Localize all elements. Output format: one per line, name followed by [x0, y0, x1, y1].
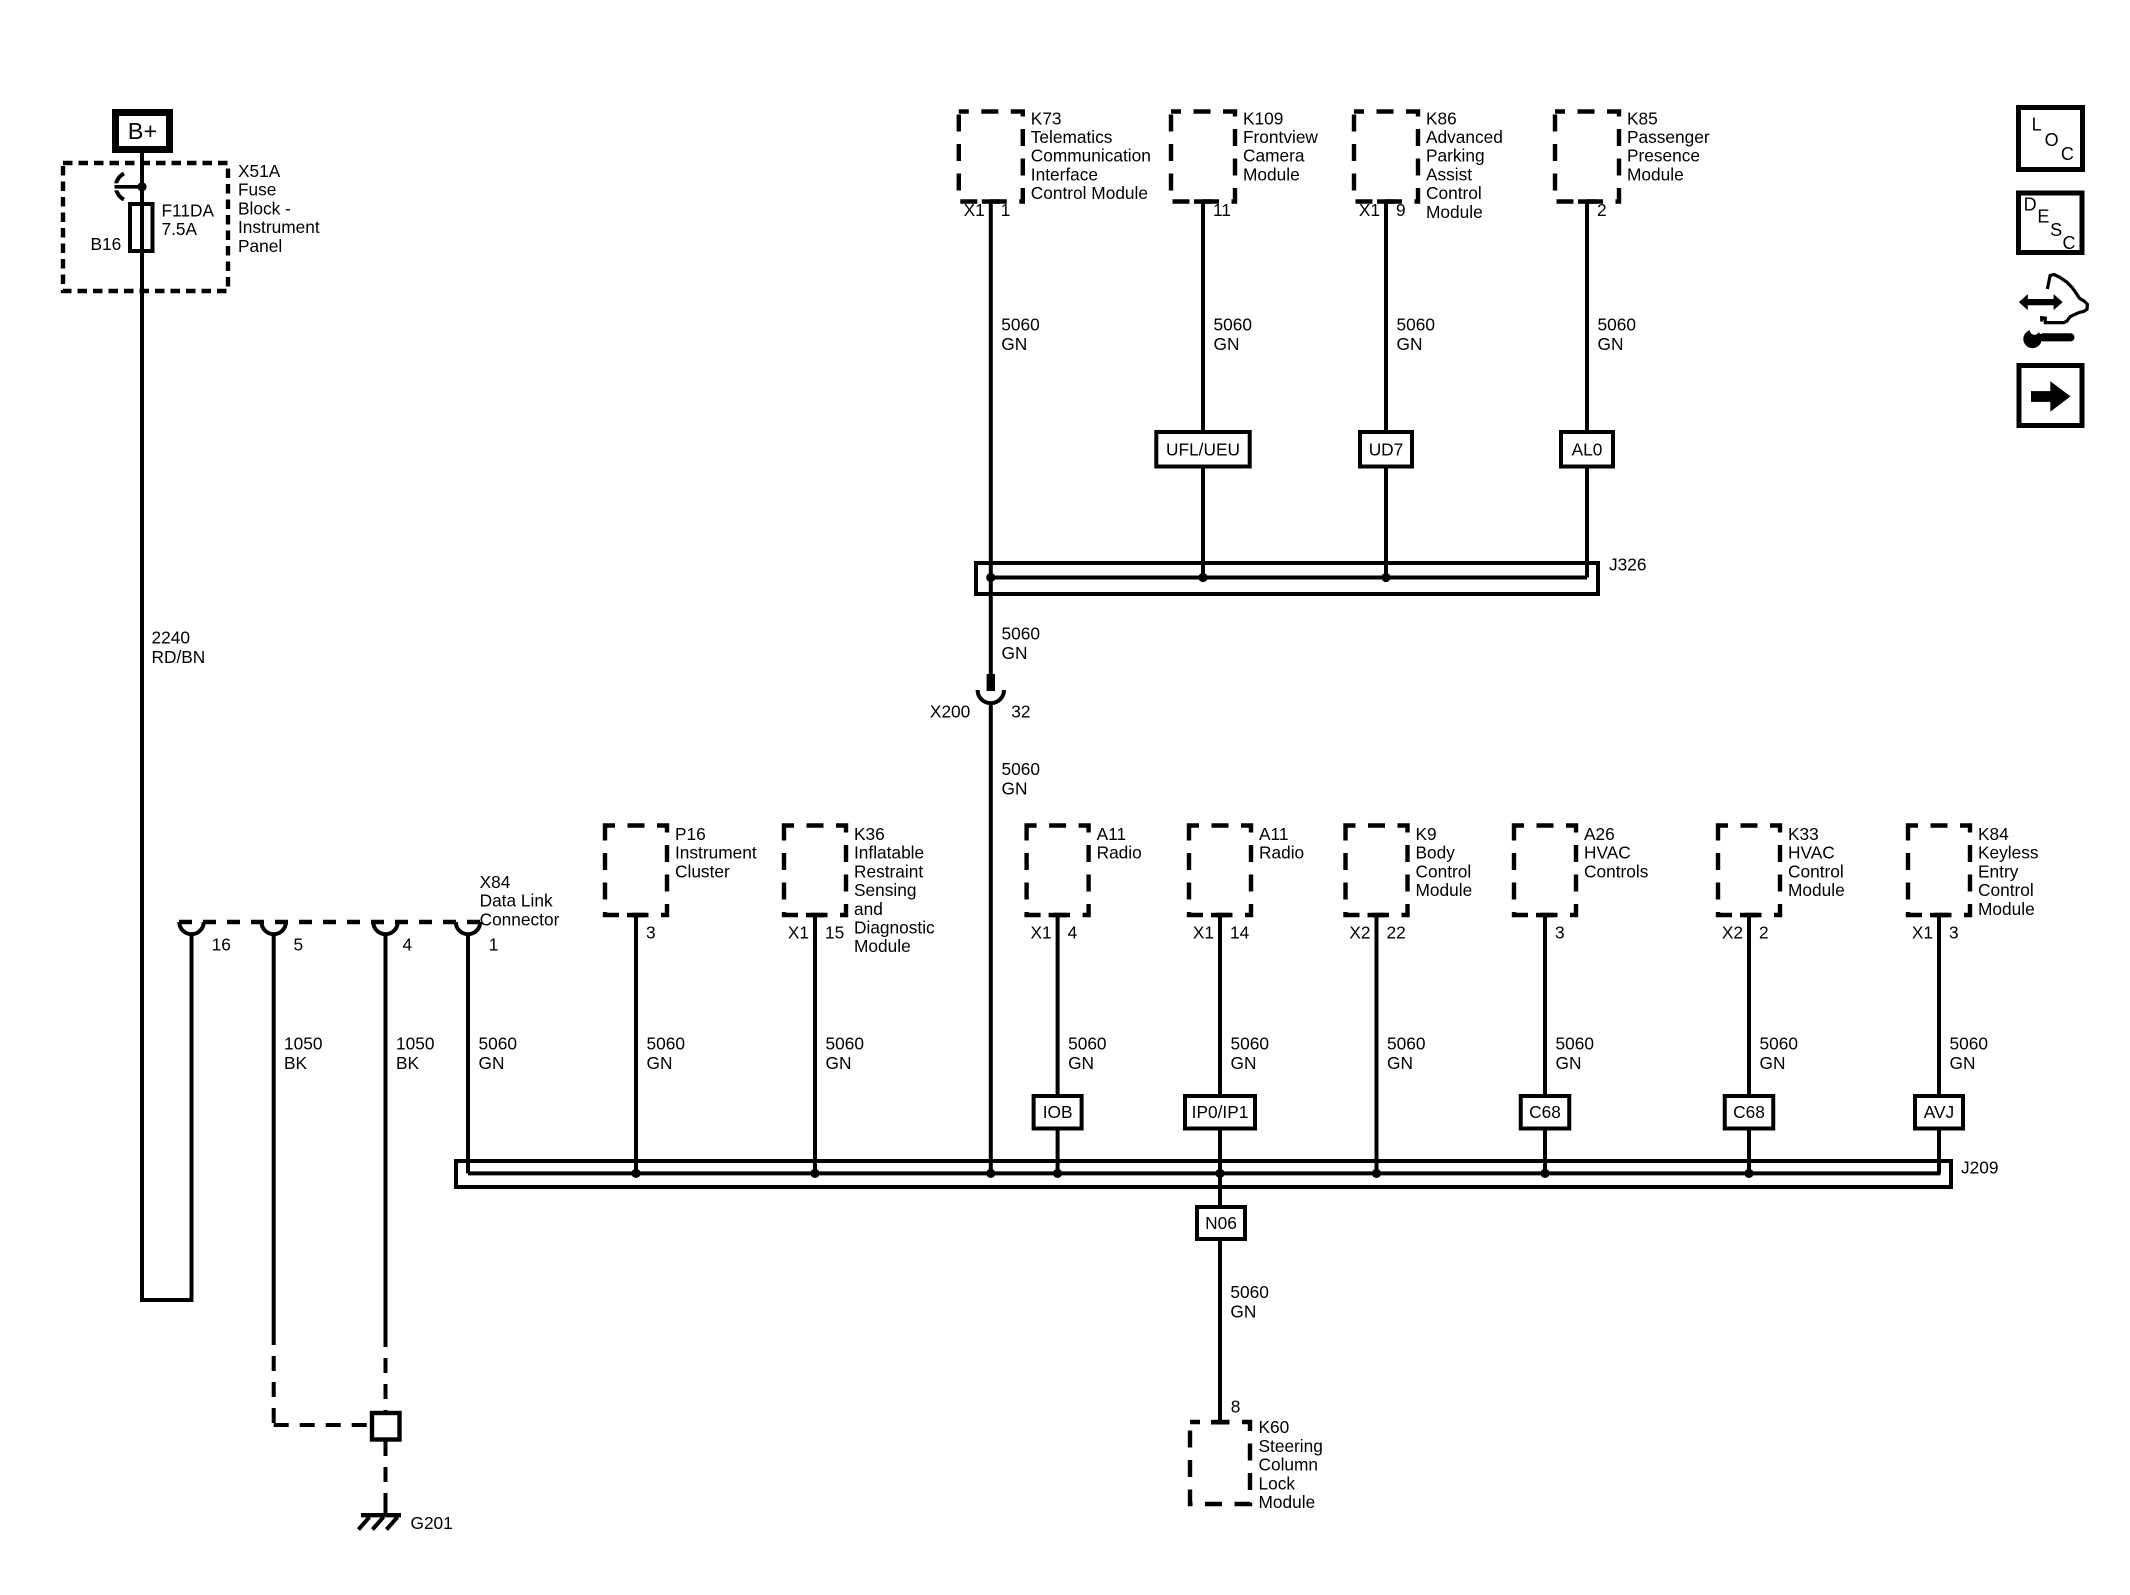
svg-text:Instrument: Instrument — [675, 843, 757, 863]
junction dot J209 at x=1057.6 — [1053, 1169, 1062, 1178]
svg-text:K84: K84 — [1978, 824, 2009, 844]
module A26 HVAC Controls (dashed box) — [1514, 826, 1576, 916]
svg-text:G201: G201 — [411, 1513, 453, 1533]
pin terminal bar at K60 — [1211, 1420, 1229, 1425]
svg-text:Communication: Communication — [1031, 146, 1151, 166]
svg-text:S: S — [2050, 220, 2062, 240]
svg-text:F11DA: F11DA — [162, 201, 215, 221]
svg-text:Control: Control — [1426, 183, 1482, 203]
pin terminal bar at K84 Keyless Entry Control Module — [1930, 913, 1948, 918]
wire 5060 GN from A26 HVAC Controls — [1543, 915, 1547, 1096]
pin terminal bar at K9 Body Control Module — [1368, 913, 1386, 918]
svg-text:Parking: Parking — [1426, 146, 1485, 166]
junction dot J326 at K73 wire — [986, 573, 995, 582]
svg-text:GN: GN — [1397, 334, 1423, 354]
data link connector X84 dashed bus line — [179, 920, 480, 924]
svg-text:IOB: IOB — [1043, 1102, 1073, 1122]
wire 1050 BK from X84 pin 5 (dashed part) — [272, 1330, 276, 1423]
pin terminal bar at P16 Instrument Cluster — [627, 913, 645, 918]
svg-text:5060: 5060 — [1950, 1034, 1988, 1054]
svg-text:A11: A11 — [1259, 824, 1288, 844]
junction dot at fuse feed — [137, 182, 146, 191]
svg-text:5060: 5060 — [1598, 314, 1636, 334]
svg-text:5060: 5060 — [479, 1034, 517, 1054]
svg-text:Fuse: Fuse — [238, 180, 276, 200]
svg-text:Module: Module — [1243, 164, 1300, 184]
svg-text:K86: K86 — [1426, 108, 1457, 128]
svg-text:5060: 5060 — [1387, 1034, 1425, 1054]
wire 5060 GN from K73 pin 1 to X200 — [989, 202, 993, 675]
svg-text:D: D — [2024, 195, 2037, 215]
svg-text:5060: 5060 — [1214, 314, 1252, 334]
pin terminal bar at A26 HVAC Controls — [1536, 913, 1554, 918]
svg-text:GN: GN — [826, 1053, 852, 1073]
svg-text:14: 14 — [1230, 922, 1250, 942]
svg-text:Module: Module — [1978, 899, 2035, 919]
svg-text:5060: 5060 — [1397, 314, 1435, 334]
svg-text:5060: 5060 — [1002, 759, 1040, 779]
svg-text:11: 11 — [1213, 200, 1231, 220]
wire usage label box IP0/IP1 at A11 Radio (X1-14) — [1185, 1096, 1255, 1129]
svg-text:Connector: Connector — [480, 909, 560, 929]
svg-text:GN: GN — [1950, 1053, 1976, 1073]
svg-text:4: 4 — [1068, 922, 1078, 942]
pin terminal bar at K85 — [1578, 199, 1596, 204]
svg-text:GN: GN — [1387, 1053, 1413, 1073]
svg-text:Inflatable: Inflatable — [854, 843, 924, 863]
svg-text:32: 32 — [1011, 702, 1030, 722]
svg-text:Module: Module — [1426, 202, 1483, 222]
wire 5060 GN from AVJ box to splice pack J209 — [1937, 1129, 1941, 1174]
svg-text:X1: X1 — [788, 922, 809, 942]
svg-text:1: 1 — [1001, 200, 1011, 220]
wire 5060 GN from K84 Keyless Entry Control Module — [1937, 915, 1941, 1096]
wire 5060 GN from C68 box to splice pack J209 — [1747, 1129, 1751, 1174]
wire 5060 GN from IP0/IP1 box to splice pack J209 — [1218, 1129, 1222, 1208]
svg-text:Control Module: Control Module — [1031, 183, 1148, 203]
svg-text:RD/BN: RD/BN — [152, 647, 206, 667]
svg-text:Column: Column — [1259, 1455, 1319, 1475]
wire 5060 GN from A11 Radio (X1-4) — [1056, 915, 1060, 1096]
module P16 Instrument Cluster (dashed box) — [605, 826, 667, 916]
svg-text:K33: K33 — [1788, 824, 1819, 844]
svg-text:X1: X1 — [1030, 922, 1051, 942]
wire 1050 BK from X84 pin 5 (solid part) — [272, 934, 276, 1330]
svg-text:A11: A11 — [1097, 824, 1126, 844]
svg-text:5060: 5060 — [1231, 1034, 1269, 1054]
svg-text:22: 22 — [1387, 922, 1406, 942]
svg-text:GN: GN — [1760, 1053, 1786, 1073]
dashed wire from splice box to ground G201 — [384, 1441, 388, 1506]
svg-text:GN: GN — [1556, 1053, 1582, 1073]
svg-text:X1: X1 — [1912, 922, 1933, 942]
svg-text:X1: X1 — [964, 200, 985, 220]
splice pack J326 internal bus — [989, 576, 1587, 580]
svg-text:O: O — [2045, 130, 2059, 150]
svg-text:Module: Module — [1788, 880, 1845, 900]
svg-text:Data Link: Data Link — [480, 891, 553, 911]
svg-text:X200: X200 — [930, 702, 970, 722]
icon wrench — [2023, 330, 2041, 348]
svg-text:5060: 5060 — [1068, 1034, 1106, 1054]
pin terminal bar at A11 Radio (X1-4) — [1049, 913, 1067, 918]
svg-text:Lock: Lock — [1259, 1473, 1296, 1493]
svg-text:Radio: Radio — [1097, 843, 1142, 863]
svg-text:X1: X1 — [1193, 922, 1214, 942]
battery positive voltage symbol B+ — [116, 113, 170, 150]
svg-text:GN: GN — [1231, 1053, 1257, 1073]
svg-text:X1: X1 — [1359, 200, 1380, 220]
splice pack J209 outline — [456, 1161, 1951, 1187]
junction dot J209 at x=990.8 — [986, 1169, 995, 1178]
svg-text:5060: 5060 — [1001, 314, 1039, 334]
wire 5060 GN from A11 Radio (X1-14) — [1218, 915, 1222, 1096]
svg-text:A26: A26 — [1584, 824, 1615, 844]
wire usage label box N06 — [1197, 1207, 1245, 1239]
svg-text:X84: X84 — [480, 872, 511, 892]
module K36 Inflatable Restraint Sensing and Diagnostic Module (dashed box) — [784, 826, 846, 916]
module K73 Telematics Communication Interface Control Module (dashed box) — [959, 112, 1023, 202]
svg-text:5060: 5060 — [826, 1034, 864, 1054]
svg-text:Module: Module — [854, 936, 911, 956]
connector X200 male terminal — [987, 674, 995, 691]
svg-text:C68: C68 — [1529, 1102, 1561, 1122]
module A11 Radio (X1-14) (dashed box) — [1189, 826, 1251, 916]
icon box DESC — [2019, 193, 2083, 253]
ground symbol G201 — [384, 1504, 388, 1516]
wire 5060 GN from K33 HVAC Control Module — [1747, 915, 1751, 1096]
connector X84 terminal hook pin 5 — [262, 922, 286, 934]
svg-text:5060: 5060 — [1002, 624, 1040, 644]
wire 5060 GN from K9 Body Control Module to splice pack J209 — [1375, 915, 1379, 1173]
fuse block X51A dashed outline — [63, 163, 228, 291]
svg-text:GN: GN — [1001, 334, 1027, 354]
svg-text:1050: 1050 — [396, 1034, 434, 1054]
svg-text:5060: 5060 — [1230, 1282, 1268, 1302]
module K84 Keyless Entry Control Module (dashed box) — [1908, 826, 1970, 916]
pin terminal bar at A11 Radio (X1-14) — [1211, 913, 1229, 918]
svg-text:Cluster: Cluster — [675, 861, 730, 881]
svg-text:B16: B16 — [91, 234, 122, 254]
module K60 Steering Column Lock Module (dashed box) — [1190, 1422, 1250, 1504]
svg-text:Sensing: Sensing — [854, 880, 916, 900]
wire 5060 GN from N06 to K60 — [1218, 1239, 1222, 1421]
svg-text:1050: 1050 — [284, 1034, 322, 1054]
ground splice box — [372, 1413, 400, 1440]
svg-text:7.5A: 7.5A — [162, 219, 198, 239]
svg-text:9: 9 — [1396, 200, 1406, 220]
svg-text:Telematics: Telematics — [1031, 127, 1113, 147]
svg-text:N06: N06 — [1205, 1213, 1237, 1233]
svg-text:X2: X2 — [1349, 922, 1370, 942]
wire 5060 GN from IOB box to splice pack J209 — [1056, 1129, 1060, 1174]
svg-text:AVJ: AVJ — [1924, 1102, 1954, 1122]
junction dot J209 at x=1545 — [1540, 1169, 1549, 1178]
svg-text:Keyless: Keyless — [1978, 843, 2039, 863]
module K33 HVAC Control Module (dashed box) — [1718, 826, 1780, 916]
svg-text:4: 4 — [403, 935, 413, 955]
svg-text:GN: GN — [1002, 643, 1028, 663]
svg-text:Diagnostic: Diagnostic — [854, 918, 935, 938]
svg-text:2: 2 — [1759, 922, 1769, 942]
svg-text:UD7: UD7 — [1369, 439, 1404, 459]
wire from X84 pin 16 down — [190, 934, 194, 1300]
connector X84 terminal hook pin 1 — [456, 922, 480, 934]
wire 1050 BK from X84 pin 4 (solid part) — [384, 934, 388, 1332]
module K85 Passenger Presence Module (dashed box) — [1555, 112, 1619, 202]
module K86 Advanced Parking Assist Control Module (dashed box) — [1354, 112, 1418, 202]
wire 5060 GN from K85 pin 2 — [1585, 202, 1589, 433]
svg-text:Module: Module — [1416, 880, 1473, 900]
junction dot J209 at x=815 — [810, 1169, 819, 1178]
svg-text:E: E — [2037, 206, 2049, 226]
pin terminal bar at K86 — [1377, 199, 1395, 204]
wire 5060 GN from UFL/UEU box to splice pack J326 — [1201, 467, 1205, 578]
svg-text:1: 1 — [489, 935, 499, 955]
connector terminal hook inside fuse block — [116, 174, 124, 200]
module A11 Radio (X1-4) (dashed box) — [1027, 826, 1089, 916]
svg-text:GN: GN — [1230, 1301, 1256, 1321]
svg-text:Advanced: Advanced — [1426, 127, 1503, 147]
svg-text:L: L — [2032, 114, 2042, 134]
svg-text:IP0/IP1: IP0/IP1 — [1192, 1102, 1249, 1122]
wire 2240 RD/BN from B+ through fuse to X84 pin 16 — [142, 153, 192, 1300]
svg-text:C68: C68 — [1733, 1102, 1765, 1122]
svg-text:GN: GN — [1002, 778, 1028, 798]
pin terminal bar at K73 — [982, 199, 1000, 204]
svg-text:Body: Body — [1416, 843, 1456, 863]
wire 5060 GN from K109 pin 11 — [1201, 202, 1205, 433]
pin terminal bar at K33 HVAC Control Module — [1740, 913, 1758, 918]
svg-text:2240: 2240 — [152, 627, 190, 647]
svg-text:5060: 5060 — [1760, 1034, 1798, 1054]
svg-text:Assist: Assist — [1426, 164, 1472, 184]
svg-text:3: 3 — [1949, 922, 1959, 942]
svg-text:K9: K9 — [1416, 824, 1437, 844]
svg-text:P16: P16 — [675, 824, 706, 844]
wire 5060 GN from AL0 box to splice pack J326 — [1585, 467, 1589, 578]
svg-text:Module: Module — [1627, 164, 1684, 184]
junction dot J326 at K109 wire — [1198, 573, 1207, 582]
svg-text:X51A: X51A — [238, 161, 281, 181]
svg-text:K109: K109 — [1243, 108, 1283, 128]
svg-text:B+: B+ — [128, 118, 157, 144]
wire usage label box UFL/UEU — [1156, 432, 1249, 467]
splice pack J209 internal bus — [468, 1171, 1940, 1175]
wire 5060 GN from P16 Instrument Cluster to splice pack J209 — [634, 915, 638, 1173]
wire 5060 GN from UD7 box to splice pack J326 — [1384, 467, 1388, 578]
svg-text:Frontview: Frontview — [1243, 127, 1318, 147]
svg-text:Camera: Camera — [1243, 146, 1305, 166]
connector X200 female terminal arc — [978, 690, 1004, 703]
svg-text:Control: Control — [1978, 880, 2034, 900]
svg-text:5: 5 — [294, 935, 304, 955]
svg-text:GN: GN — [1068, 1053, 1094, 1073]
svg-text:BK: BK — [284, 1053, 308, 1073]
svg-text:J209: J209 — [1961, 1158, 1998, 1178]
svg-text:Module: Module — [1259, 1492, 1316, 1512]
svg-text:8: 8 — [1231, 1397, 1241, 1417]
svg-text:2: 2 — [1597, 200, 1607, 220]
svg-text:UFL/UEU: UFL/UEU — [1166, 439, 1240, 459]
svg-text:15: 15 — [825, 922, 844, 942]
connector X84 terminal hook pin 16 — [179, 922, 203, 934]
junction dot J209 at x=1376.5 — [1372, 1169, 1381, 1178]
junction dot J209 at x=1749 — [1744, 1169, 1753, 1178]
svg-text:Presence: Presence — [1627, 146, 1700, 166]
svg-text:Entry: Entry — [1978, 861, 2019, 881]
svg-text:J326: J326 — [1609, 555, 1646, 575]
svg-text:X2: X2 — [1722, 922, 1743, 942]
junction dot J326 at K86 wire — [1381, 573, 1390, 582]
pin terminal bar at K36 Inflatable Restraint Sensing and Diagnostic Module — [806, 913, 824, 918]
junction dot J209 at x=636 — [631, 1169, 640, 1178]
svg-text:Control: Control — [1788, 861, 1844, 881]
connector X84 terminal hook pin 4 — [373, 922, 397, 934]
svg-text:Passenger: Passenger — [1627, 127, 1710, 147]
wire usage label box AVJ at K84 Keyless Entry Control Module — [1915, 1096, 1963, 1129]
svg-text:Steering: Steering — [1259, 1436, 1323, 1456]
splice pack J326 outline — [976, 563, 1598, 594]
svg-text:3: 3 — [1555, 922, 1565, 942]
svg-text:K85: K85 — [1627, 108, 1658, 128]
svg-text:Panel: Panel — [238, 236, 282, 256]
wire 5060 GN from K36 Inflatable Restraint Sensing and Diagnostic Module to splice pack J209 — [813, 915, 817, 1173]
wire usage label box IOB at A11 Radio (X1-4) — [1034, 1096, 1082, 1129]
svg-text:Block -: Block - — [238, 198, 291, 218]
junction dot J209 at x=1220 — [1215, 1169, 1224, 1178]
wire 5060 GN from X84 pin 1 to splice pack J209 — [466, 934, 470, 1173]
module K9 Body Control Module (dashed box) — [1346, 826, 1408, 916]
svg-text:GN: GN — [1598, 334, 1624, 354]
svg-text:K60: K60 — [1259, 1417, 1290, 1437]
fuse F11DA 7.5A symbol — [130, 204, 153, 251]
svg-text:Controls: Controls — [1584, 861, 1649, 881]
svg-text:Radio: Radio — [1259, 843, 1304, 863]
icon box LOC — [2019, 108, 2083, 170]
svg-text:C: C — [2063, 233, 2076, 253]
svg-text:C: C — [2061, 144, 2074, 164]
svg-text:5060: 5060 — [1556, 1034, 1594, 1054]
svg-text:HVAC: HVAC — [1788, 843, 1835, 863]
svg-text:GN: GN — [647, 1053, 673, 1073]
svg-text:3: 3 — [646, 922, 656, 942]
wire usage label box AL0 — [1561, 432, 1613, 467]
svg-text:Restraint: Restraint — [854, 861, 923, 881]
svg-text:BK: BK — [396, 1053, 420, 1073]
icon double-headed arrow — [2019, 294, 2063, 310]
svg-text:K36: K36 — [854, 824, 885, 844]
wire 5060 GN from X200 pin 32 to splice pack J209 — [989, 703, 993, 1174]
wire 5060 GN from K86 pin 9 — [1384, 202, 1388, 433]
svg-text:16: 16 — [212, 935, 231, 955]
wire 1050 BK from X84 pin 4 (dashed part) — [384, 1332, 388, 1413]
svg-text:5060: 5060 — [647, 1034, 685, 1054]
svg-text:and: and — [854, 899, 883, 919]
svg-text:HVAC: HVAC — [1584, 843, 1631, 863]
wire usage label box C68 at K33 HVAC Control Module — [1725, 1096, 1774, 1129]
icon harness routing view (car outline) — [2042, 275, 2088, 323]
wire 5060 GN from C68 box to splice pack J209 — [1543, 1129, 1547, 1174]
svg-text:K73: K73 — [1031, 108, 1062, 128]
svg-text:Interface: Interface — [1031, 164, 1098, 184]
pin terminal bar at K109 — [1194, 199, 1212, 204]
icon box forward arrow — [2019, 366, 2082, 426]
svg-text:Control: Control — [1416, 861, 1472, 881]
wire usage label box C68 at A26 HVAC Controls — [1521, 1096, 1570, 1129]
svg-text:GN: GN — [479, 1053, 505, 1073]
wire usage label box UD7 — [1360, 432, 1412, 467]
module K109 Frontview Camera Module (dashed box) — [1171, 112, 1235, 202]
svg-text:AL0: AL0 — [1572, 439, 1603, 459]
svg-text:Instrument: Instrument — [238, 217, 320, 237]
svg-text:GN: GN — [1214, 334, 1240, 354]
